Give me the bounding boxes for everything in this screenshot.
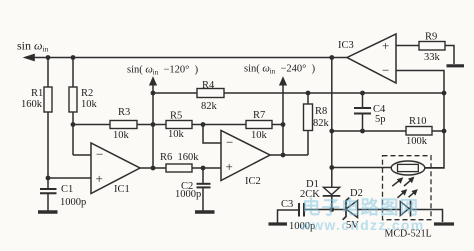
svg-text:C3: C3 <box>281 199 293 210</box>
ground bottom right <box>434 222 454 225</box>
wire C4 stem top <box>362 93 364 108</box>
svg-text:−: − <box>382 63 389 78</box>
svg-text:−: − <box>226 135 233 150</box>
svg-text:R4: R4 <box>202 80 215 91</box>
svg-text:100k: 100k <box>406 136 428 147</box>
wire R1 vertical drop from top rail <box>47 58 49 88</box>
svg-text:−: − <box>96 147 103 162</box>
wire C3 left leg <box>278 210 300 223</box>
junction R7 right / sin-240 shaft <box>281 122 286 127</box>
op-amp IC1 <box>91 143 140 195</box>
wire LED to right ground <box>412 210 443 223</box>
optocoupler MCD-521L dashed box <box>383 156 432 240</box>
svg-text:10k: 10k <box>251 130 268 141</box>
svg-text:10k: 10k <box>113 130 130 141</box>
junction IC1 output node <box>151 166 156 171</box>
junction C4 top on feedback rail <box>360 91 365 96</box>
svg-text:33k: 33k <box>424 52 441 63</box>
wire R9 to ground <box>445 46 454 65</box>
ground for C3 <box>269 222 288 225</box>
junction IC2 output node <box>281 153 286 158</box>
capacitor C1 <box>40 184 86 211</box>
svg-text:R9: R9 <box>425 32 437 43</box>
wire R4 feedback rail to IC3 minus <box>153 92 197 94</box>
svg-text:IC1: IC1 <box>114 184 130 195</box>
wire node sin-120 vertical <box>152 80 154 168</box>
junction R5-R7 / IC2 minus drop <box>201 122 206 127</box>
svg-text:R1: R1 <box>31 88 43 99</box>
resistor R10 <box>406 116 432 147</box>
junction R10 right on right vertical <box>442 129 447 134</box>
label sin-win <box>17 39 49 54</box>
wire output drop to diode chain <box>331 58 333 188</box>
svg-text:82k: 82k <box>201 101 218 112</box>
svg-text:R8: R8 <box>315 106 327 117</box>
wire R10 rail <box>332 130 406 132</box>
ground for C1 <box>38 210 58 213</box>
svg-text:C1: C1 <box>61 184 73 195</box>
junction C4 bottom on R10 rail <box>360 129 365 134</box>
wire C2 stem <box>202 168 204 184</box>
resistor R5 <box>166 111 192 141</box>
input arrow sin-win <box>23 54 35 62</box>
wire IC1 plus input <box>48 177 91 179</box>
svg-text:IC3: IC3 <box>338 40 354 51</box>
svg-text:5p: 5p <box>375 114 386 125</box>
junction R8 top on feedback rail <box>306 91 311 96</box>
junction feedback rail right corner <box>442 91 447 96</box>
light arrows of optocoupler <box>392 177 418 198</box>
svg-text:IC2: IC2 <box>245 176 261 187</box>
wire IC1 output to IC2 plus <box>140 167 166 169</box>
wire C4 stem bottom <box>362 114 364 131</box>
svg-text:+: + <box>96 171 103 186</box>
resistor R7 <box>246 110 272 141</box>
junction IC3 output drop <box>329 55 334 60</box>
svg-text:+: + <box>226 159 233 174</box>
svg-text:R6 160k: R6 160k <box>160 152 199 163</box>
capacitor C2 <box>175 181 211 200</box>
svg-text:+: + <box>382 38 389 53</box>
node label sin(w-240) <box>244 64 316 86</box>
resistor R6 <box>160 152 199 172</box>
wire IC1 minus input <box>73 154 91 156</box>
wire R8 bottom leg <box>307 131 309 156</box>
wire node sin-240 vertical <box>282 80 284 155</box>
wire top rail sin-win from arrow to IC3 output <box>25 57 347 59</box>
wire R8 top leg <box>307 93 309 104</box>
junction D1 bottom rail <box>329 207 334 212</box>
wire IC3 plus to R9 <box>396 45 419 47</box>
svg-text:R7: R7 <box>253 110 265 121</box>
resistor R3 <box>110 107 137 141</box>
wire lamp left <box>332 167 392 169</box>
resistor R4 <box>197 80 224 112</box>
LED of optocoupler <box>400 201 410 217</box>
op-amp IC3 (points left) <box>338 34 396 83</box>
resistor R1 <box>21 87 52 112</box>
diode D2 zener 5V <box>343 188 363 231</box>
ground for C2 <box>195 210 215 213</box>
resistor R9 <box>419 32 445 64</box>
capacitor C4 <box>354 104 386 125</box>
svg-text:sin( ωin −240° ): sin( ωin −240° ) <box>244 64 316 76</box>
capacitor C3 <box>281 199 315 232</box>
junction R4 left on sin-120 shaft <box>151 91 156 96</box>
wire lamp right <box>425 167 444 169</box>
wire IC2 minus input drop <box>203 125 221 144</box>
wire IC2 output <box>270 154 308 156</box>
junction R6 right / C2 / IC2 plus <box>201 166 206 171</box>
junction IC1 plus / C1 <box>46 176 51 181</box>
junction R10 rail left <box>329 129 334 134</box>
svg-text:1000p: 1000p <box>60 197 86 208</box>
resistor R2 <box>69 87 98 112</box>
svg-text:电子电路图网: 电子电路图网 <box>302 197 419 218</box>
junction R2 top rail <box>71 55 76 60</box>
junction R2 bottom bus <box>71 122 76 127</box>
wire R2 vertical drop from top rail <box>72 58 74 88</box>
watermark <box>299 197 425 233</box>
wire IC3 minus to right vertical <box>396 71 444 169</box>
junction R1 top rail <box>46 55 51 60</box>
ground for R9 <box>447 64 465 67</box>
svg-text:R3: R3 <box>118 107 130 118</box>
svg-text:R5: R5 <box>170 111 182 122</box>
svg-text:82k: 82k <box>313 118 330 129</box>
resistor R8 <box>304 104 330 131</box>
svg-text:R2: R2 <box>81 88 93 99</box>
svg-text:10k: 10k <box>168 129 185 140</box>
svg-text:1000p: 1000p <box>175 189 201 200</box>
photoresistor lamp of optocoupler <box>391 161 425 175</box>
junction node sin-120 on bus <box>151 122 156 127</box>
svg-text:R10: R10 <box>409 116 427 127</box>
op-amp IC2 <box>221 131 270 188</box>
wire D1 to bottom rail <box>331 195 333 210</box>
svg-text:sin( ωin −120° ): sin( ωin −120° ) <box>127 65 199 77</box>
node label sin(w-120) <box>127 65 199 86</box>
svg-text:www.cndzz.com: www.cndzz.com <box>299 217 425 233</box>
svg-text:10k: 10k <box>81 99 98 110</box>
junction lamp wire on output drop <box>329 165 334 170</box>
wire bus R3-R5-R7 <box>73 124 110 126</box>
svg-text:160k: 160k <box>21 99 43 110</box>
diode D1 <box>300 179 340 200</box>
wire bottom rail C3 to D2 to LED <box>304 209 347 211</box>
